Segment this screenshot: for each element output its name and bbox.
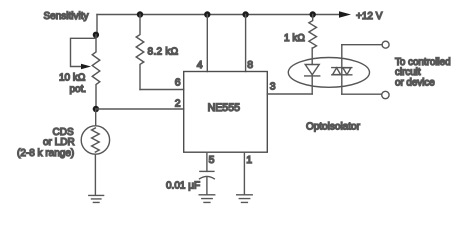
wire pin 1 to ground <box>243 152 245 194</box>
svg-text:pot.: pot. <box>70 84 87 95</box>
svg-text:0.01 μF: 0.01 μF <box>166 181 200 192</box>
wire pin 3 to optoisolator LED cathode <box>267 93 312 95</box>
wire pin 4 <box>206 15 208 72</box>
svg-text:Sensitivity: Sensitivity <box>44 11 89 22</box>
wire pin 5 to capacitor <box>206 152 208 171</box>
wire pot wiper loop <box>71 38 96 66</box>
svg-text:8.2 kΩ: 8.2 kΩ <box>148 47 179 58</box>
svg-text:1 kΩ: 1 kΩ <box>284 33 305 44</box>
terminal lower circle <box>382 91 389 98</box>
op-amp U1 NE555 box <box>184 72 268 153</box>
svg-text:1: 1 <box>246 154 252 166</box>
photoresistor CDS zigzag <box>92 128 100 152</box>
wire CDS to ground <box>94 154 96 195</box>
svg-text:10 kΩ: 10 kΩ <box>59 73 86 84</box>
supply arrow +12V <box>339 11 351 18</box>
ground under CDS <box>89 195 104 202</box>
ground under pin 1 <box>237 195 253 203</box>
pot wiper arrowhead <box>81 64 91 70</box>
photoresistor CDS circle <box>81 126 109 154</box>
optoisolator U2 ellipse <box>288 58 369 88</box>
svg-text:3: 3 <box>270 80 276 92</box>
LED D1 triangle <box>305 65 319 75</box>
wire triac top to upper terminal <box>342 44 382 46</box>
ground under capacitor <box>199 195 215 203</box>
svg-text:(2-8 k range): (2-8 k range) <box>17 148 74 159</box>
node junction dot 1k top <box>310 11 316 17</box>
resistor R3 1k zigzag <box>309 15 317 49</box>
LED cathode wire down to pin3 wire <box>311 76 313 94</box>
node junction dot pin 8 <box>242 11 248 17</box>
svg-text:4: 4 <box>197 59 203 71</box>
resistor R2 8.2k zigzag <box>136 15 144 90</box>
phototriac top bar <box>332 67 352 69</box>
svg-text:NE555: NE555 <box>208 102 240 114</box>
svg-text:CDS: CDS <box>53 127 74 138</box>
svg-text:+12 V: +12 V <box>356 11 383 22</box>
capacitor C1 curved plate <box>200 176 215 178</box>
node junction dot pin 4 <box>204 11 210 17</box>
wire triac bottom to lower terminal <box>342 93 382 95</box>
svg-text:6: 6 <box>175 77 181 89</box>
node junction dot 8.2k top <box>137 11 143 17</box>
svg-text:or device: or device <box>395 78 435 89</box>
phototriac left triangle (apex up) <box>333 68 341 75</box>
phototriac bottom bar <box>332 74 352 76</box>
wire pot bottom to pin 2 <box>96 108 184 110</box>
wire 8.2k bottom to pin 6 <box>140 89 184 91</box>
phototriac vertical conductor <box>341 45 343 94</box>
wire pin 8 <box>245 15 247 72</box>
wire capacitor to ground <box>206 177 208 195</box>
node junction dot pot top <box>93 32 99 38</box>
LED anode wire <box>311 48 313 65</box>
capacitor C1 top plate <box>200 170 214 172</box>
svg-text:8: 8 <box>247 59 253 71</box>
svg-text:Optoisolator: Optoisolator <box>306 121 361 132</box>
wire pot bottom to CDS <box>95 109 97 126</box>
wire top +12V rail <box>97 14 339 16</box>
svg-text:5: 5 <box>209 154 215 166</box>
node junction dot pot bottom / pin2 <box>93 106 99 112</box>
svg-text:or LDR: or LDR <box>43 137 75 148</box>
svg-text:circuit: circuit <box>395 67 421 78</box>
svg-text:2: 2 <box>175 97 181 109</box>
LED D1 cathode bar <box>305 75 320 77</box>
phototriac right triangle (apex down) <box>343 68 351 75</box>
potentiometer R1 10k zigzag <box>92 35 100 109</box>
terminal upper circle <box>382 41 389 48</box>
wire corner from Sensitivity down to pot top <box>96 15 98 35</box>
